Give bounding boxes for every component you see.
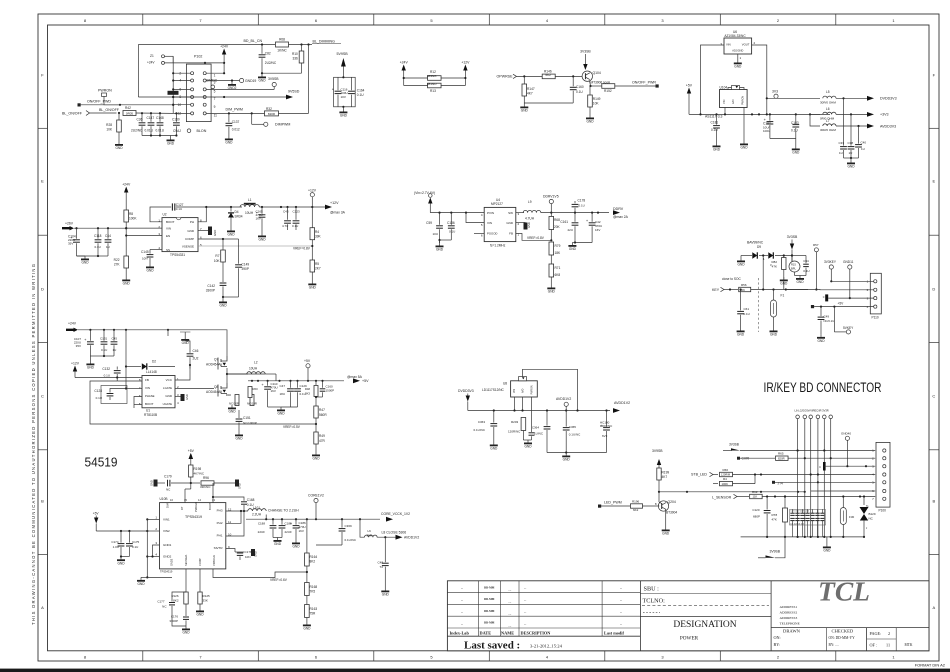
svg-text:54519: 54519 [85, 456, 118, 470]
svg-text:47K: 47K [772, 518, 777, 522]
svg-text:3K3: 3K3 [305, 392, 310, 396]
svg-text:C160: C160 [576, 85, 584, 89]
svg-text:16V: 16V [256, 217, 261, 221]
capacitor C147 [150, 113, 152, 122]
svg-text:C365: C365 [569, 425, 577, 429]
svg-text:GND: GND [235, 437, 243, 441]
power +5V input arrow [189, 453, 193, 459]
wire Z1 to pin1 column [205, 62, 224, 64]
wire caps to gnd [77, 255, 99, 257]
svg-text:C123: C123 [293, 210, 301, 214]
svg-text:0.01U: 0.01U [145, 129, 154, 133]
wires P102 left pins to bus [173, 72, 190, 74]
svg-text:R4: R4 [723, 477, 727, 481]
wire pin3 row from GND40 [824, 465, 875, 467]
resistor R49 [314, 432, 318, 444]
svg-text:AOD454A: AOD454A [206, 390, 221, 394]
capacitor C128 [110, 389, 126, 393]
svg-text:GND: GND [340, 114, 348, 118]
svg-text:TPS54319: TPS54319 [160, 570, 173, 574]
svg-text:GND: GND [740, 146, 748, 150]
ground for R82 [783, 276, 785, 278]
svg-text:PH: PH [190, 220, 194, 224]
svg-text:R125: R125 [203, 594, 211, 598]
svg-text:AVDD1V2: AVDD1V2 [614, 401, 630, 405]
net flag R57 [814, 248, 818, 252]
svg-text:D9: D9 [757, 245, 761, 249]
resistor R96 [191, 482, 200, 484]
svg-text:820R: 820R [268, 112, 276, 116]
svg-text:0.1U: 0.1U [576, 90, 583, 94]
wire U8 pins down [522, 397, 524, 411]
wire L2 out to rail [264, 373, 266, 375]
svg-text:C132: C132 [102, 367, 110, 371]
capacitor C188 [272, 519, 274, 524]
svg-text:GND: GND [185, 394, 189, 400]
svg-text:+5V: +5V [93, 511, 100, 515]
svg-text:C48: C48 [377, 561, 383, 565]
capacitor C176 [183, 616, 189, 618]
capacitor C49 [820, 307, 822, 317]
wire R196 to Q204 base [643, 505, 660, 507]
svg-text:A: A [41, 605, 44, 610]
wire KEY to R56 [724, 289, 738, 291]
capacitor C168 [243, 505, 245, 511]
svg-text:LED_PWM: LED_PWM [604, 501, 622, 505]
ground for U104 [743, 141, 745, 144]
svg-text:C164: C164 [357, 88, 365, 92]
wire PH to diode/inductor [198, 207, 206, 222]
svg-text:BAV99/NC: BAV99/NC [747, 241, 764, 245]
wire pin11 DIM_PWM [206, 112, 264, 114]
svg-text:TELEPHONE: TELEPHONE [780, 621, 800, 625]
wire C142/C149 join [223, 296, 239, 298]
svg-text:R10: R10 [292, 52, 298, 56]
svg-text:FORMAT DIN A2: FORMAT DIN A2 [915, 663, 946, 668]
ground for C188/C189 [273, 537, 282, 539]
svg-text:R79: R79 [555, 244, 561, 248]
svg-text:39R: 39R [367, 533, 373, 537]
capacitor C107 polarized [89, 330, 91, 341]
svg-text:+26V: +26V [65, 221, 74, 225]
capacitor C118 [97, 228, 99, 239]
svg-text:C188: C188 [258, 522, 266, 526]
svg-text:3V3: 3V3 [772, 90, 778, 94]
svg-text:C131: C131 [100, 337, 108, 341]
net CHRI [737, 457, 740, 460]
wire VIN feed rail [96, 530, 147, 532]
power 3V3SB arrow [583, 64, 587, 70]
capacitor C136 [450, 213, 452, 225]
wire input rail U4 [430, 212, 484, 214]
capacitor C365 [565, 411, 567, 427]
wire GND1 pin stub [153, 545, 160, 557]
svg-text:C364: C364 [532, 426, 540, 430]
ground for C176 [185, 626, 187, 629]
svg-text:C: C [41, 393, 44, 398]
svg-text:PGOOD: PGOOD [487, 232, 497, 236]
svg-text:R199: R199 [662, 471, 670, 475]
capacitor C110 polarized [267, 381, 269, 386]
net flag DIMPWM [251, 113, 253, 124]
svg-text:100U/NC: 100U/NC [600, 424, 613, 428]
svg-text:ADDRESS2: ADDRESS2 [780, 610, 798, 614]
resistor R42 [123, 111, 136, 116]
svg-text:DDRV1V5: DDRV1V5 [543, 195, 559, 199]
svg-text:VREF=0.8V: VREF=0.8V [293, 247, 311, 251]
svg-text:--: -- [620, 598, 622, 602]
svg-text:GND: GND [225, 141, 233, 145]
svg-text:SS/TR: SS/TR [214, 546, 224, 550]
ground for R28 [118, 142, 120, 145]
wire left edge loop [137, 45, 139, 98]
net JT4 [772, 481, 775, 484]
resistor R32 [265, 111, 279, 116]
IR bus vertical wires [797, 419, 799, 537]
revision table grid [639, 581, 641, 651]
capacitor C120 [766, 497, 768, 510]
wire R08 to BL_DIMMING [289, 44, 313, 46]
svg-text:GND: GND [87, 366, 95, 370]
wire +12V to FB row [75, 377, 142, 379]
ferrite L6 39R [360, 519, 365, 537]
ground small under Q8 [231, 405, 233, 408]
wire rail to C46 and box [167, 330, 169, 336]
resistor R62 [737, 496, 749, 498]
svg-text:GND: GND [187, 229, 195, 233]
net ON/OFF_PWD [78, 103, 81, 106]
svg-text:PWRGD: PWRGD [194, 502, 198, 512]
wire COMP pin [198, 239, 223, 250]
svg-text:PHASE: PHASE [145, 394, 155, 398]
svg-text:GND: GND [792, 151, 800, 155]
svg-text:GND: GND [312, 457, 320, 461]
svg-text:3V3KEY: 3V3KEY [824, 260, 837, 264]
wire Q204 collector node [658, 491, 660, 493]
svg-text:100U: 100U [763, 129, 770, 133]
svg-text:DD-MM: DD-MM [484, 610, 495, 613]
capacitor C116 polarized [334, 77, 356, 107]
svg-text:LD1117S12/NC: LD1117S12/NC [482, 388, 505, 392]
resistor R68 [550, 213, 552, 216]
svg-text:R15: R15 [791, 263, 796, 267]
svg-text:R5: R5 [315, 262, 319, 266]
svg-text:4K7: 4K7 [527, 92, 533, 96]
svg-text:1U: 1U [113, 348, 117, 352]
ground for C107 [89, 361, 91, 364]
svg-text:EN: EN [166, 234, 170, 238]
wire VCC pin to C46 [175, 365, 190, 380]
capacitor C33 [843, 98, 845, 145]
wire D9 anode down to gnd [740, 256, 742, 259]
svg-text:F30: F30 [849, 515, 855, 519]
svg-text:R42: R42 [125, 106, 131, 110]
svg-text:E: E [932, 178, 935, 183]
svg-text:R164: R164 [310, 555, 318, 559]
svg-text:COMP: COMP [198, 558, 202, 566]
wire C176/C177 join gnd [172, 612, 186, 626]
capacitor 1U/NC on adj [529, 432, 535, 434]
transistor Q104 MT3906 [582, 71, 592, 81]
ground for C59/C136 [439, 243, 441, 246]
svg-text:SW: SW [508, 211, 513, 215]
svg-text:9V5SD: 9V5SD [288, 89, 300, 93]
ground for F1 [773, 328, 775, 331]
wire pin6 row [811, 490, 876, 492]
wire ON/OFF_PWD [81, 104, 174, 106]
svg-text:R82: R82 [771, 260, 777, 264]
capacitor C45 [113, 330, 115, 341]
wire GND pin U2 [198, 230, 208, 232]
svg-text:GND: GND [506, 221, 514, 225]
svg-text:33K: 33K [203, 599, 208, 603]
svg-text:+12V: +12V [308, 189, 317, 193]
svg-text:ON/OFF_PWR: ON/OFF_PWR [632, 80, 656, 84]
svg-text:GND: GND [254, 551, 258, 557]
resistor R7 [221, 250, 226, 262]
wire VIN1 pin [147, 518, 159, 520]
svg-text:MTK: MTK [905, 643, 913, 647]
svg-text:--: -- [524, 598, 526, 602]
capacitor C364 [546, 411, 548, 426]
resistor R164 [306, 518, 308, 520]
svg-text:VCC: VCC [166, 378, 173, 382]
svg-text:GND: GND [227, 233, 235, 237]
svg-text:GND: GND [182, 341, 190, 345]
capacitor C178 on SS [226, 549, 235, 553]
svg-text:35V: 35V [68, 242, 73, 246]
capacitor HC180 polarized [606, 411, 608, 427]
svg-text:BT3904: BT3904 [666, 511, 677, 515]
output arrow AVDD1V2 [613, 408, 620, 413]
svg-text:@max 5A: @max 5A [347, 375, 363, 379]
svg-text:3V9SB: 3V9SB [770, 550, 781, 554]
svg-text:DESCRIPTION: DESCRIPTION [521, 631, 552, 636]
svg-text:BOOT: BOOT [166, 220, 175, 224]
svg-text:--: -- [620, 622, 622, 626]
svg-text:8K2: 8K2 [173, 599, 179, 603]
capacitor C145 [149, 250, 151, 254]
svg-text:0.012: 0.012 [232, 128, 240, 132]
wire pin5 to 3V5SB [206, 88, 274, 90]
wire Q104 collector down [590, 81, 591, 87]
svg-text:336: 336 [292, 57, 298, 61]
capacitor C186 polarized [295, 519, 297, 524]
fuse F1 [773, 290, 775, 301]
capacitor C151 [238, 410, 240, 418]
ground for U6 [737, 60, 739, 63]
power +12V arrow right [463, 65, 467, 71]
svg-text:6K2: 6K2 [546, 73, 552, 77]
svg-text:1K/NC: 1K/NC [277, 49, 287, 53]
svg-text:UGATE: UGATE [163, 402, 173, 406]
output arrow +5V max5A [353, 378, 360, 383]
svg-text:VIN: VIN [513, 389, 516, 393]
resistor RT8 47K [784, 497, 786, 509]
svg-text:6K2: 6K2 [633, 508, 639, 512]
svg-text:PWRON: PWRON [531, 385, 534, 394]
wire +26V input rail [74, 227, 162, 229]
svg-text:C: C [823, 296, 825, 299]
svg-text:3V3SB: 3V3SB [787, 235, 798, 239]
svg-text:CHANGE TO 2.2UH: CHANGE TO 2.2UH [268, 509, 299, 513]
wire R42 to P102 bus [136, 112, 173, 114]
svg-text:L6: L6 [826, 107, 830, 111]
wire bottom rail to left riser [740, 536, 742, 538]
wire caps gnd join [440, 239, 452, 241]
capacitor C175 [128, 531, 130, 543]
svg-text:3V9SB: 3V9SB [652, 449, 663, 453]
svg-text:GND: GND [213, 230, 217, 236]
svg-text:+5V: +5V [362, 379, 369, 383]
svg-text:VIN: VIN [726, 43, 731, 47]
svg-text:SBU :: SBU : [644, 586, 660, 593]
svg-text:ON: DD-MM-YY: ON: DD-MM-YY [829, 636, 856, 640]
svg-text:C44: C44 [105, 234, 111, 238]
resistor R79 [549, 242, 554, 255]
svg-text:30R/0 OHM: 30R/0 OHM [820, 128, 836, 132]
wire big loop top from rail to Q7 [168, 330, 227, 352]
svg-text:820R: 820R [778, 456, 785, 460]
resistor R125 [198, 592, 202, 604]
wire R152 to ON/OFF_PWR [615, 85, 656, 87]
svg-text:R168: R168 [310, 585, 318, 589]
svg-text:A/O: A/O [522, 389, 525, 393]
wire R66 to bus pin4 [733, 474, 876, 476]
svg-text:22U: 22U [567, 228, 573, 232]
svg-text:RT: RT [180, 506, 184, 510]
svg-text:C49: C49 [824, 314, 830, 318]
svg-text:C178: C178 [578, 199, 586, 203]
svg-text:39K: 39K [315, 235, 322, 239]
wire R65 to pin2 [788, 457, 875, 459]
output arrow DDRV [613, 210, 620, 215]
svg-text:BL_ON/OFF: BL_ON/OFF [99, 108, 120, 112]
svg-text:AZ1084-33/NC: AZ1084-33/NC [724, 34, 746, 38]
svg-text:U2: U2 [163, 213, 167, 217]
wire VIN pin 7 [126, 388, 142, 390]
svg-text:4K7: 4K7 [662, 475, 668, 479]
svg-text:P102: P102 [194, 55, 202, 59]
svg-text:Last saved :: Last saved : [464, 639, 520, 651]
wire P110 pin1 from 3V3KEY [831, 280, 873, 282]
svg-text:GND: GND [303, 627, 311, 631]
svg-text:L7: L7 [826, 119, 830, 123]
svg-text:C148: C148 [156, 116, 164, 120]
svg-text:--: -- [524, 622, 526, 626]
left pin bus vertical [172, 56, 174, 113]
svg-text:R22: R22 [114, 258, 120, 262]
svg-text:BY:: BY: [774, 642, 781, 647]
svg-text:2U2/NC: 2U2/NC [265, 61, 277, 65]
svg-text:VIN: VIN [722, 100, 726, 104]
svg-text:BLON: BLON [197, 129, 207, 133]
svg-text:L8 CLOSE 5306: L8 CLOSE 5306 [382, 531, 407, 535]
svg-text:DATE: DATE [480, 631, 492, 636]
svg-text:GND: GND [182, 631, 190, 635]
ground for C363 [493, 442, 495, 445]
svg-text:PWRON: PWRON [742, 96, 745, 105]
svg-text:PH3: PH3 [217, 509, 223, 513]
svg-text:AVDD1V2: AVDD1V2 [404, 536, 419, 540]
svg-text:10K: 10K [593, 102, 600, 106]
ground for caps [565, 452, 567, 455]
svg-text:GND3: GND3 [170, 558, 174, 566]
svg-text:B: B [41, 498, 44, 503]
svg-text:20K: 20K [554, 225, 561, 229]
connector P110 [870, 273, 881, 314]
svg-text:680P: 680P [753, 515, 760, 519]
svg-text:0.1U/NC: 0.1U/NC [473, 428, 485, 432]
svg-text:VREF=0.8V: VREF=0.8V [527, 236, 545, 240]
svg-text:47K: 47K [772, 265, 777, 269]
output arrow DVDD3V3 [867, 96, 874, 101]
svg-text:11: 11 [214, 114, 218, 118]
svg-text:Z1: Z1 [150, 54, 154, 58]
svg-text:10V: 10V [341, 95, 346, 99]
wire U6 VIN from left riser [701, 45, 725, 114]
svg-text:VREF=0.5V: VREF=0.5V [283, 425, 301, 429]
svg-text:C183: C183 [791, 121, 799, 125]
wire D9 junction to KEY row [762, 256, 764, 290]
ground for C49 [820, 334, 822, 337]
wire P110 pin4 +5V [811, 305, 814, 308]
svg-text:R198: R198 [194, 467, 202, 471]
svg-text:16V: 16V [595, 228, 600, 232]
svg-text:R56: R56 [741, 283, 747, 287]
capacitor C46 [189, 349, 191, 353]
ground for IR block [826, 537, 828, 544]
capacitor C137 [228, 113, 230, 122]
svg-text:C121 C122 C123 C124: C121 C122 C123 C124 [790, 511, 809, 513]
ground GND top for C46 [184, 337, 186, 340]
svg-text:7: 7 [214, 97, 216, 101]
svg-text:0R05: 0R05 [126, 112, 134, 116]
svg-text:--: -- [461, 610, 463, 614]
svg-text:A: A [932, 605, 935, 610]
svg-text:FB: FB [509, 232, 513, 236]
IR bus net rings [796, 415, 800, 419]
resistor R203 [521, 418, 526, 431]
svg-text:0.1U: 0.1U [95, 245, 101, 249]
main AVDD1V2 rail [468, 410, 610, 412]
svg-text:VSENSE: VSENSE [182, 245, 194, 249]
svg-text:DD-MM: DD-MM [484, 598, 495, 601]
svg-text:18K: 18K [555, 251, 562, 255]
svg-text:C149: C149 [242, 263, 250, 267]
svg-text:U10B: U10B [160, 497, 168, 501]
svg-text:PWRON: PWRON [98, 89, 112, 93]
svg-text:GND: GND [167, 142, 175, 146]
MOSFET Q7 AOD454A [175, 388, 214, 390]
ground for C94 area [794, 272, 796, 276]
svg-text:GND: GND [196, 613, 204, 617]
svg-text:GND: GND [115, 146, 123, 150]
svg-text:11: 11 [886, 642, 890, 647]
svg-text:+12V: +12V [330, 201, 339, 205]
svg-text:PVIN: PVIN [487, 211, 494, 215]
svg-text:L5: L5 [826, 90, 830, 94]
svg-text:L6-LC/GO5V/VIREC/IR 3V3R: L6-LC/GO5V/VIREC/IR 3V3R [795, 409, 829, 413]
svg-text:L_SENSOR: L_SENSOR [712, 496, 732, 500]
svg-text:ON:: ON: [774, 635, 781, 640]
svg-text:GND: GND [258, 238, 266, 242]
resistor R65 [740, 457, 775, 459]
svg-text:C175: C175 [132, 540, 140, 544]
ground for C82 [261, 74, 263, 77]
resistor R60 [248, 387, 252, 398]
capacitor C178b [574, 201, 576, 203]
